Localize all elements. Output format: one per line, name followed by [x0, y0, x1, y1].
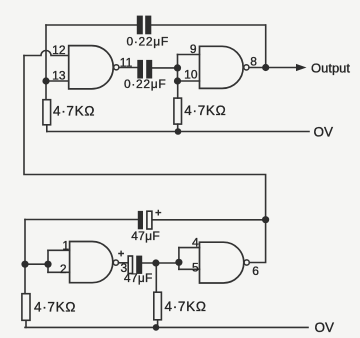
svg-text:2: 2: [60, 262, 67, 276]
svg-text:12: 12: [52, 43, 66, 57]
svg-text:10: 10: [184, 68, 198, 82]
svg-text:4·7KΩ: 4·7KΩ: [184, 103, 226, 118]
svg-text:4: 4: [192, 235, 199, 249]
svg-text:0·22μF: 0·22μF: [124, 77, 166, 91]
svg-text:4·7KΩ: 4·7KΩ: [34, 300, 76, 315]
svg-text:0·22μF: 0·22μF: [126, 34, 168, 48]
svg-text:6: 6: [252, 264, 259, 278]
svg-text:1: 1: [62, 238, 69, 252]
svg-text:5: 5: [192, 260, 199, 274]
svg-text:Output: Output: [311, 61, 350, 76]
svg-text:4·7KΩ: 4·7KΩ: [53, 104, 95, 119]
svg-text:OV: OV: [314, 124, 334, 139]
svg-text:4·7KΩ: 4·7KΩ: [165, 299, 207, 314]
svg-text:11: 11: [120, 55, 133, 69]
svg-text:3: 3: [121, 261, 128, 275]
svg-text:13: 13: [52, 68, 66, 82]
svg-text:47μF: 47μF: [131, 229, 160, 243]
svg-text:8: 8: [250, 55, 257, 69]
svg-text:9: 9: [190, 42, 197, 56]
svg-text:47μF: 47μF: [124, 271, 153, 285]
svg-text:OV: OV: [315, 320, 335, 335]
